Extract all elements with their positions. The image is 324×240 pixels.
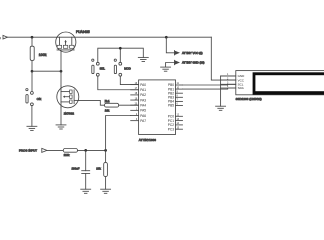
wire node down to 10k [105,150,107,162]
svg-text:2N7002: 2N7002 [64,112,75,116]
node junction on rail at 100k [31,36,34,39]
resistor 10k [96,162,107,176]
wire ON button to ground [31,106,33,127]
resistor 100k [30,46,47,60]
arrow [63,96,65,98]
svg-text:PA6: PA6 [140,114,146,118]
stubs to plates [61,91,70,93]
wire MOD top to rail [119,48,121,62]
svg-text:PC3: PC3 [168,127,174,131]
transistor N-MOSFET 2N7002 [57,86,79,116]
connector PROG INPUT [19,148,47,152]
svg-text:PA7: PA7 [140,119,146,123]
arrow [64,41,66,43]
svg-text:100nF: 100nF [72,166,80,170]
svg-text:PA4: PA4 [140,103,146,107]
svg-text:PA0: PA0 [140,83,146,87]
svg-text:ON: ON [37,97,42,101]
node junction on rail at ATTINY VCC tap [165,36,168,39]
svg-text:PROG INPUT: PROG INPUT [19,149,37,153]
svg-text:SEL: SEL [100,66,106,70]
ground under 2N7002 [56,125,66,129]
node junction cap [84,149,87,152]
wire 110k to node [78,149,106,151]
svg-text:MOD: MOD [124,66,131,70]
vertical through line [60,86,62,108]
svg-text:SSD1306 (128X32): SSD1306 (128X32) [236,97,262,101]
svg-text:PA2: PA2 [140,93,146,97]
ground for ATTINY GND [161,67,171,71]
leads drop from rail [59,37,61,45]
connector arrow ATTINY VCC [175,51,203,55]
svg-text:100k: 100k [39,53,47,57]
MCU right pin stubs PB0-PB5 [176,85,183,106]
wire N-FET drain up to junction [60,71,62,86]
wire P-FET gate lead down [60,50,62,71]
wire SCL PB0 to OLED [183,83,236,86]
wire SDA PB1 to OLED [183,88,236,89]
wire ATTINY GND arrow to ground [166,63,175,68]
wire main top rail [7,36,211,38]
ground for OLED [216,106,226,110]
plates [70,90,73,93]
wire MOD bottom to MCU PA0 [120,76,138,85]
wire SEL bottom to MCU PA1 [98,76,139,90]
svg-text:ATTINY1606: ATTINY1606 [139,138,156,142]
svg-text:PA3: PA3 [140,98,146,102]
wire 100k bottom to junction [31,61,33,72]
plates [57,45,61,48]
svg-text:PA5: PA5 [140,109,146,113]
wire N-FET gate lead to jog [79,100,105,105]
wire PROG INPUT to 110k [47,149,63,151]
input connector (top-left) [0,35,7,39]
IC U1 ATTINY1606 MCU box [139,80,176,142]
svg-text:PUA3435: PUA3435 [76,30,90,34]
resistor 110k [63,149,77,158]
svg-text:10k: 10k [105,108,110,112]
MCU left pin labels [140,83,146,123]
svg-text:10k: 10k [96,166,101,170]
svg-text:PA1: PA1 [140,88,146,92]
node junction buttons rail [119,47,122,50]
transistor P-MOSFET PUA3435 [56,30,90,52]
display screen black frame [253,72,324,94]
node junction 10k [104,149,107,152]
wire junction to P-FET gate column [32,70,61,72]
svg-text:PB5: PB5 [168,104,174,108]
MCU right pin numbers [177,83,180,129]
capacitor 100nF [72,166,90,173]
MCU right pin stubs PC0-PC3 [176,116,183,129]
wire buttons top rail to ground [98,48,144,62]
MCU left pin numbers [135,83,138,121]
ground under 10k [101,189,111,193]
svg-text:ATTINY GND (20): ATTINY GND (20) [182,61,204,65]
pushbutton ON [26,89,41,106]
resistor R4 [105,100,119,113]
ground under capacitor [81,189,91,193]
wire VCC rail to OLED [211,37,236,80]
MCU left pin stubs PA0-PA7 [131,85,139,121]
pushbutton SEL [92,59,106,76]
ground under ON button [27,126,37,130]
display SSD1306 box [236,71,324,102]
gate bar [57,49,74,51]
node junction gate node left [31,70,34,73]
wire R4 to MCU PA4 [119,104,139,106]
svg-text:SDA: SDA [238,86,244,90]
wire node up to MCU PA6 [106,116,131,151]
wire OLED GND to ground [221,76,236,106]
wire node down to capacitor [85,150,87,170]
display pin stubs [221,76,236,88]
wire N-FET source down to ground [60,108,62,125]
gate bar [73,90,75,104]
MCU right pin labels [168,83,174,131]
wire rail to 100k top [31,37,33,46]
svg-text:ATTINY VCC (1): ATTINY VCC (1) [182,51,203,55]
ground for buttons [138,57,148,61]
connector arrow ATTINY GND [175,60,205,64]
wire junction down to ON button [31,71,33,91]
pushbutton MOD [114,59,131,76]
display pin labels [238,74,246,90]
svg-text:110k: 110k [64,153,70,157]
display pin numbers [227,74,229,88]
wire capacitor to ground [85,174,87,190]
wire 10k to ground [105,177,107,190]
wire ATTINY VCC tap [166,37,174,53]
svg-text:R4: R4 [105,100,110,104]
node junction gate node right [60,70,63,73]
